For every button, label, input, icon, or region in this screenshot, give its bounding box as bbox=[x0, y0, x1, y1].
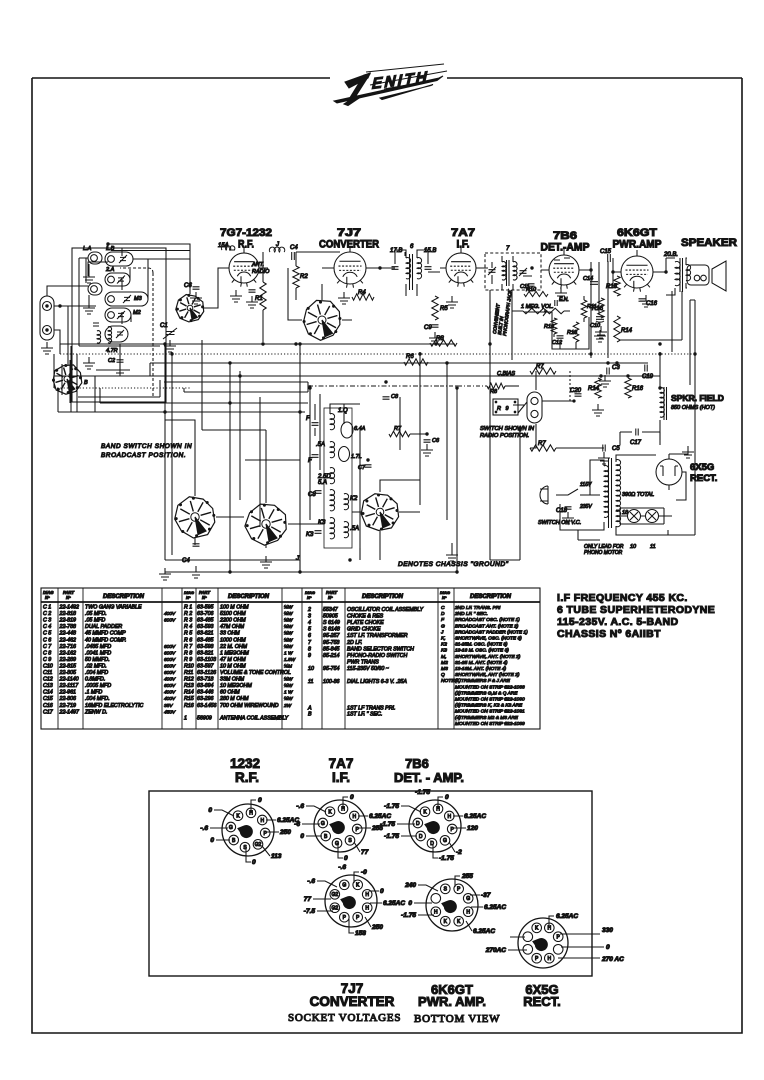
label 6K6GT PWR.AMP bbox=[613, 227, 662, 251]
svg-text:.5A: .5A bbox=[350, 526, 359, 532]
cap C18b bbox=[565, 507, 572, 509]
svg-text:63-595: 63-595 bbox=[197, 605, 214, 611]
wire bottom bus 3 bbox=[230, 531, 457, 572]
svg-text:C14: C14 bbox=[43, 690, 53, 696]
svg-text:R 2: R 2 bbox=[184, 611, 192, 617]
svg-text:R4: R4 bbox=[358, 290, 366, 296]
svg-text:(1)TRIMMERS F & J ARE: (1)TRIMMERS F & J ARE bbox=[455, 678, 511, 684]
svg-text:H: H bbox=[352, 814, 356, 820]
wire coil bank top bbox=[88, 244, 190, 294]
svg-text:C6: C6 bbox=[184, 283, 192, 289]
svg-text:-7.5: -7.5 bbox=[304, 908, 316, 915]
ground 6X5 bbox=[669, 450, 688, 454]
svg-text:.0005 MFD: .0005 MFD bbox=[85, 683, 111, 689]
volume control 1MEG bbox=[523, 308, 564, 314]
oval shield 6.4A bbox=[341, 422, 353, 438]
svg-text:600V: 600V bbox=[164, 657, 176, 663]
svg-text:RECT.: RECT. bbox=[690, 473, 717, 484]
svg-text:1.Q: 1.Q bbox=[338, 408, 348, 414]
svg-text:BROADCAST POSITION.: BROADCAST POSITION. bbox=[101, 452, 186, 459]
svg-text:R 4: R 4 bbox=[184, 624, 192, 630]
svg-text:R12: R12 bbox=[184, 677, 194, 683]
svg-text:G2: G2 bbox=[331, 892, 338, 898]
ground C6b bbox=[426, 444, 428, 450]
coil 5.A2 bbox=[344, 522, 349, 538]
svg-text:PWR.AMP: PWR.AMP bbox=[613, 239, 662, 251]
svg-text:11: 11 bbox=[650, 544, 656, 550]
svg-text:PWR. AMP.: PWR. AMP. bbox=[418, 994, 486, 1009]
svg-text:R6: R6 bbox=[406, 354, 414, 360]
svg-text:0: 0 bbox=[208, 807, 212, 814]
svg-text:MOUNTED ON STRIP #22-1089: MOUNTED ON STRIP #22-1089 bbox=[455, 721, 525, 727]
svg-text:6.25AC: 6.25AC bbox=[484, 904, 506, 911]
wafer switch S5 bbox=[245, 504, 286, 545]
svg-text:C14: C14 bbox=[583, 276, 593, 282]
svg-text:H: H bbox=[466, 910, 470, 916]
svg-text:DIAL LIGHTS 6-3 V. .25A: DIAL LIGHTS 6-3 V. .25A bbox=[347, 679, 407, 685]
svg-text:115-235V. A.C. 5-BAND: 115-235V. A.C. 5-BAND bbox=[557, 616, 678, 628]
svg-text:7J7: 7J7 bbox=[337, 227, 361, 239]
svg-text:3: 3 bbox=[308, 614, 311, 620]
variable cap C1 bbox=[166, 332, 175, 335]
svg-text:BROADCAST ANT. (NOTE 2): BROADCAST ANT. (NOTE 2) bbox=[455, 623, 519, 629]
svg-text:G: G bbox=[443, 838, 447, 844]
svg-text:55347: 55347 bbox=[323, 607, 339, 613]
wire c17 bbox=[620, 432, 660, 445]
resistor R13 bbox=[573, 322, 579, 342]
svg-text:6.25AC: 6.25AC bbox=[383, 900, 405, 907]
svg-text:TWO GANG VARIABLE: TWO GANG VARIABLE bbox=[85, 605, 142, 611]
cap C19 bbox=[645, 365, 647, 372]
coil .5A bbox=[330, 442, 335, 458]
svg-text:-1.75: -1.75 bbox=[401, 912, 416, 919]
svg-text:G2: G2 bbox=[255, 842, 262, 848]
svg-text:R8: R8 bbox=[436, 336, 444, 342]
parts table panel 1 rows bbox=[43, 605, 176, 716]
svg-text:22 M. OHM: 22 M. OHM bbox=[219, 644, 248, 650]
label SPEAKER bbox=[681, 237, 737, 249]
output transformer 20.B bbox=[675, 262, 680, 286]
svg-text:R16: R16 bbox=[184, 703, 194, 709]
svg-text:(3)TRIMMERS K, K2 & K3 ARE: (3)TRIMMERS K, K2 & K3 ARE bbox=[455, 703, 523, 709]
ground S5 bbox=[265, 556, 267, 562]
svg-text:63-597: 63-597 bbox=[197, 663, 215, 669]
wire grid RF bbox=[204, 247, 268, 308]
svg-text:1 W: 1 W bbox=[284, 650, 293, 656]
coil 15.A bbox=[221, 246, 234, 250]
svg-text:6.25AC: 6.25AC bbox=[556, 913, 578, 920]
svg-text:½W: ½W bbox=[284, 630, 293, 637]
svg-text:G: G bbox=[229, 825, 233, 831]
svg-text:11: 11 bbox=[308, 679, 314, 685]
resistor R14b bbox=[595, 378, 601, 398]
svg-text:ZENW D.: ZENW D. bbox=[84, 709, 107, 715]
svg-text:33M OHM: 33M OHM bbox=[220, 677, 245, 683]
svg-text:PHONO MOTOR: PHONO MOTOR bbox=[584, 550, 623, 556]
svg-text:600V: 600V bbox=[164, 618, 176, 624]
7B6 diode plates bbox=[554, 258, 570, 260]
coil unit L.A bbox=[88, 252, 102, 264]
svg-text:0: 0 bbox=[380, 888, 384, 895]
svg-text:22-815: 22-815 bbox=[59, 663, 77, 669]
svg-text:6 TUBE SUPERHETERODYNE: 6 TUBE SUPERHETERODYNE bbox=[557, 604, 715, 616]
svg-text:0: 0 bbox=[344, 855, 348, 862]
tube V6 6X5G bbox=[656, 459, 682, 485]
svg-text:50 MMFD.: 50 MMFD. bbox=[85, 657, 110, 663]
svg-text:R 6: R 6 bbox=[184, 637, 192, 643]
svg-text:BROADCAST OSC. (NOTE 1): BROADCAST OSC. (NOTE 1) bbox=[455, 617, 520, 623]
wire antenna to coils bbox=[47, 286, 96, 365]
svg-text:C1: C1 bbox=[160, 323, 168, 329]
svg-text:H: H bbox=[365, 892, 369, 898]
svg-text:0: 0 bbox=[300, 833, 304, 840]
svg-text:50905: 50905 bbox=[323, 614, 338, 620]
coil J bbox=[269, 247, 284, 252]
svg-text:9: 9 bbox=[308, 653, 311, 659]
wire left verticals bbox=[62, 354, 120, 412]
parts table panel 2 rows bbox=[184, 604, 296, 722]
svg-text:77: 77 bbox=[304, 896, 312, 903]
svg-text:M2: M2 bbox=[441, 660, 448, 666]
trimmer G bbox=[116, 330, 124, 338]
svg-text:45 MMFD COMP: 45 MMFD COMP bbox=[85, 631, 126, 637]
svg-text:PWR TRANS: PWR TRANS bbox=[347, 659, 379, 665]
svg-text:R7: R7 bbox=[394, 426, 402, 432]
wire spkr field bbox=[620, 291, 695, 535]
svg-text:15.B: 15.B bbox=[424, 248, 436, 254]
svg-text:250: 250 bbox=[371, 924, 383, 931]
resistor R5 bbox=[432, 296, 438, 320]
svg-text:10 M OHM: 10 M OHM bbox=[220, 663, 246, 669]
ground C5b bbox=[603, 452, 605, 458]
wire osc top bbox=[315, 404, 360, 436]
svg-text:22-162: 22-162 bbox=[59, 650, 77, 656]
svg-text:100-86: 100-86 bbox=[323, 679, 340, 685]
resistor R10 horizontal bbox=[524, 291, 548, 296]
svg-text:400V: 400V bbox=[164, 696, 176, 702]
wire left drops bbox=[165, 340, 300, 503]
tube V1 7G7-1232 bbox=[229, 253, 259, 283]
svg-text:-1.75: -1.75 bbox=[384, 833, 399, 840]
wire R8b bbox=[440, 385, 487, 387]
svg-text:22-806: 22-806 bbox=[59, 696, 77, 702]
parts table column rules bbox=[58, 588, 454, 729]
tube V5 6K6GT bbox=[621, 256, 653, 288]
cap C11 bbox=[528, 284, 535, 286]
wire lamps bbox=[616, 508, 672, 524]
svg-text:RADIO: RADIO bbox=[252, 269, 270, 275]
svg-text:S 6149: S 6149 bbox=[323, 620, 340, 626]
svg-text:H: H bbox=[434, 910, 438, 916]
svg-text:C15: C15 bbox=[43, 696, 53, 702]
svg-text:400V: 400V bbox=[164, 611, 176, 617]
resistor R2 bbox=[293, 266, 299, 288]
label 6K6GT PWR AMP socket bbox=[418, 982, 486, 1009]
svg-text:C15: C15 bbox=[600, 249, 612, 255]
svg-text:SPKR. FIELD: SPKR. FIELD bbox=[671, 393, 724, 403]
svg-text:6.25AC: 6.25AC bbox=[464, 813, 486, 820]
wire rect bbox=[616, 455, 686, 535]
svg-text:Nº: Nº bbox=[66, 595, 71, 600]
svg-text:-.6: -.6 bbox=[338, 864, 346, 871]
socket V2 leaders bbox=[302, 797, 371, 858]
svg-text:2: 2 bbox=[307, 607, 311, 613]
ground 7A7 cathode bbox=[451, 296, 453, 302]
svg-text:G: G bbox=[441, 623, 445, 629]
svg-text:22-716: 22-716 bbox=[59, 644, 77, 650]
svg-text:J: J bbox=[440, 629, 444, 635]
svg-text:C18: C18 bbox=[556, 508, 568, 514]
svg-text:R1: R1 bbox=[255, 296, 263, 302]
svg-text:DESCRIPTION: DESCRIPTION bbox=[362, 594, 404, 600]
svg-text:22-462: 22-462 bbox=[59, 637, 77, 643]
svg-text:G: G bbox=[321, 821, 325, 827]
wire bus 4 bbox=[54, 375, 660, 377]
coil unit M3 bbox=[105, 292, 148, 306]
cap C7b bbox=[365, 465, 372, 467]
svg-text:L.B: L.B bbox=[106, 246, 115, 252]
svg-text:S 6148: S 6148 bbox=[323, 627, 340, 633]
svg-text:R 3: R 3 bbox=[184, 618, 192, 624]
svg-text:2ND I.F. " SEC.: 2ND I.F. " SEC. bbox=[454, 611, 488, 617]
svg-text:1 W: 1 W bbox=[284, 690, 293, 696]
wire speaker bbox=[666, 258, 687, 295]
svg-text:R14: R14 bbox=[621, 328, 633, 334]
svg-text:-37: -37 bbox=[481, 892, 491, 899]
svg-text:4: 4 bbox=[308, 620, 311, 626]
wafer switch S4 bbox=[175, 497, 215, 538]
cap C9 bbox=[432, 325, 439, 327]
dashed switch enclosure bbox=[120, 268, 153, 397]
svg-text:R10: R10 bbox=[184, 663, 194, 669]
label 7A7 I.F. socket bbox=[329, 756, 354, 785]
svg-text:½M: ½M bbox=[284, 662, 292, 669]
coil 5.A bbox=[330, 490, 335, 511]
svg-text:390Ω TOTAL: 390Ω TOTAL bbox=[622, 492, 654, 498]
socket area frame bbox=[149, 791, 592, 976]
label 7J7 CONVERTER socket bbox=[310, 981, 395, 1009]
wire wafer connects bbox=[288, 268, 352, 320]
svg-text:63-1456: 63-1456 bbox=[197, 703, 216, 709]
label 7B6 DET.-AMP. socket bbox=[394, 756, 464, 785]
svg-text:6: 6 bbox=[308, 633, 311, 639]
svg-text:-.6: -.6 bbox=[307, 878, 315, 885]
pilot lamps bbox=[628, 510, 659, 523]
svg-text:½W: ½W bbox=[284, 623, 293, 630]
svg-text:C12: C12 bbox=[552, 340, 562, 346]
svg-text:½W: ½W bbox=[284, 617, 293, 624]
svg-text:31-25M. OSC. (NOTE 3): 31-25M. OSC. (NOTE 3) bbox=[455, 642, 508, 648]
svg-text:GRID CHOKE: GRID CHOKE bbox=[347, 627, 381, 633]
socket V4 7J7 bbox=[325, 875, 377, 927]
svg-text:½W: ½W bbox=[284, 682, 293, 689]
cap C5b bbox=[603, 445, 605, 452]
svg-text:0: 0 bbox=[606, 944, 610, 951]
spkr field coil bbox=[660, 388, 664, 418]
svg-text:Nº: Nº bbox=[186, 595, 191, 600]
cap C16 bbox=[639, 299, 646, 301]
svg-text:.004 MFD: .004 MFD bbox=[85, 670, 108, 676]
svg-text:22-448: 22-448 bbox=[59, 631, 77, 637]
wafer switch S6 bbox=[361, 494, 398, 531]
coil 15.B bbox=[417, 258, 422, 279]
svg-text:56909: 56909 bbox=[197, 715, 212, 721]
svg-text:6K6GT: 6K6GT bbox=[617, 227, 657, 239]
svg-text:½W: ½W bbox=[284, 676, 293, 683]
ground left mid bbox=[88, 357, 90, 363]
wire osc to wafers bbox=[195, 480, 420, 548]
svg-text:22-788: 22-788 bbox=[59, 624, 77, 630]
svg-text:½W: ½W bbox=[284, 695, 293, 702]
svg-text:.05 MFD.: .05 MFD. bbox=[85, 611, 107, 617]
wire drop 2 bbox=[360, 300, 490, 560]
svg-text:85-214: 85-214 bbox=[323, 653, 340, 659]
svg-text:95-758: 95-758 bbox=[323, 640, 340, 646]
resistor R8 bbox=[430, 340, 457, 346]
ground C18 bbox=[597, 404, 599, 410]
svg-text:63-593: 63-593 bbox=[197, 624, 214, 630]
cap C6 bbox=[193, 287, 200, 289]
wire bus 6 bbox=[100, 402, 308, 404]
svg-text:22-961: 22-961 bbox=[59, 690, 77, 696]
svg-text:40 MMFD COMP.: 40 MMFD COMP. bbox=[85, 637, 126, 643]
svg-text:ANT.: ANT. bbox=[251, 262, 264, 268]
cap C2 bbox=[117, 360, 124, 362]
phono switch box bbox=[493, 399, 518, 415]
svg-text:DESCRIPTION: DESCRIPTION bbox=[103, 594, 145, 600]
wire bottom bus 1 bbox=[165, 559, 300, 561]
tube V2 7J7 converter bbox=[334, 252, 366, 284]
svg-text:C19: C19 bbox=[642, 374, 654, 380]
phono lead note bbox=[578, 530, 600, 540]
svg-text:2200 OHM: 2200 OHM bbox=[219, 618, 246, 624]
ground S4 bbox=[164, 568, 166, 574]
svg-text:600V: 600V bbox=[164, 663, 176, 669]
svg-text:PLATE CHOKE: PLATE CHOKE bbox=[347, 620, 384, 626]
svg-text:C17: C17 bbox=[630, 440, 642, 446]
svg-text:C 7: C 7 bbox=[43, 644, 52, 650]
trimmer F2 bbox=[312, 455, 319, 458]
chassis info text bbox=[557, 592, 715, 640]
svg-text:VOLUME & TONE CONTROL: VOLUME & TONE CONTROL bbox=[220, 670, 291, 676]
svg-text:R 5: R 5 bbox=[184, 631, 192, 637]
svg-text:R15: R15 bbox=[606, 284, 618, 290]
svg-text:22-1140: 22-1140 bbox=[59, 677, 79, 683]
svg-text:.02 MFD.: .02 MFD. bbox=[85, 663, 107, 669]
coil unit M2 bbox=[105, 308, 131, 322]
phono switch stadium bbox=[527, 392, 542, 423]
speaker bbox=[687, 261, 726, 291]
parts table headers bbox=[43, 590, 512, 600]
ground C2 bbox=[119, 364, 121, 370]
svg-text:C8: C8 bbox=[308, 492, 316, 498]
svg-text:270 AC: 270 AC bbox=[601, 956, 624, 963]
svg-text:CHOKE & RES: CHOKE & RES bbox=[347, 614, 384, 620]
svg-text:47M OHM: 47M OHM bbox=[220, 624, 245, 630]
svg-text:.05 MFD: .05 MFD bbox=[85, 618, 105, 624]
wire bus 7 bbox=[58, 411, 305, 413]
svg-text:1.7L: 1.7L bbox=[351, 454, 362, 460]
svg-text:SPEAKER: SPEAKER bbox=[681, 237, 737, 249]
wire dashdot mid bbox=[308, 385, 440, 387]
svg-text:100 M OHM: 100 M OHM bbox=[220, 605, 249, 611]
svg-text:(4)TRIMMERS M2 & M3 ARE: (4)TRIMMERS M2 & M3 ARE bbox=[455, 715, 519, 721]
svg-text:63-706: 63-706 bbox=[197, 611, 214, 617]
svg-text:0: 0 bbox=[210, 837, 214, 844]
svg-text:22-1117: 22-1117 bbox=[59, 683, 80, 689]
svg-text:I.F.: I.F. bbox=[332, 770, 350, 785]
svg-text:Nº: Nº bbox=[442, 595, 447, 600]
switch on vc bbox=[556, 489, 590, 495]
svg-text:63-485: 63-485 bbox=[197, 637, 214, 643]
cap C8b bbox=[383, 397, 390, 399]
svg-text:10: 10 bbox=[630, 544, 637, 550]
antenna terminal strip bbox=[40, 296, 54, 340]
svg-text:(2)TRIMMERS G,M & Q ARE: (2)TRIMMERS G,M & Q ARE bbox=[455, 690, 518, 696]
svg-text:R5: R5 bbox=[440, 306, 448, 312]
svg-text:17.B: 17.B bbox=[390, 248, 402, 254]
trimmer cap IF2 left bbox=[489, 270, 496, 273]
svg-text:280 M OHM: 280 M OHM bbox=[219, 696, 249, 702]
svg-text:½W: ½W bbox=[284, 610, 293, 617]
svg-text:700 OHM WIREWOUND: 700 OHM WIREWOUND bbox=[220, 703, 279, 709]
cap C10 bbox=[315, 531, 322, 534]
resistor R14 bbox=[614, 316, 620, 342]
svg-text:33 OHM: 33 OHM bbox=[220, 631, 240, 637]
svg-text:SOCKET VOLTAGES: SOCKET VOLTAGES bbox=[288, 1012, 401, 1024]
svg-text:DET.-AMP: DET.-AMP bbox=[541, 242, 590, 254]
svg-text:10: 10 bbox=[308, 666, 314, 672]
svg-text:R7: R7 bbox=[536, 364, 544, 370]
ground C1 bbox=[169, 340, 171, 346]
svg-text:158: 158 bbox=[355, 930, 366, 937]
ground bus right bbox=[604, 375, 606, 381]
wire stadium out bbox=[542, 400, 574, 402]
svg-text:MOUNTED ON STRIP #22-1088: MOUNTED ON STRIP #22-1088 bbox=[455, 684, 525, 690]
coil 1.Q bbox=[330, 414, 335, 430]
resistor R16b bbox=[625, 378, 631, 398]
parts table frame bbox=[41, 588, 540, 729]
svg-text:450V: 450V bbox=[164, 709, 176, 715]
svg-text:Nº: Nº bbox=[328, 595, 333, 600]
parts table panel 4 rows bbox=[440, 605, 528, 727]
svg-text:20.B.: 20.B. bbox=[663, 252, 678, 258]
RF coil bank box bbox=[72, 248, 166, 402]
svg-text:63-1126: 63-1126 bbox=[197, 670, 216, 676]
svg-text:BAND SWITCH SHOWN IN: BAND SWITCH SHOWN IN bbox=[101, 443, 192, 450]
denotes ground symbol bbox=[451, 543, 453, 549]
coil 7.B bbox=[513, 262, 517, 280]
svg-text:-6: -6 bbox=[294, 821, 300, 828]
svg-text:6X5G: 6X5G bbox=[690, 462, 714, 473]
svg-text:-.6: -.6 bbox=[296, 803, 304, 810]
svg-text:63-296: 63-296 bbox=[197, 696, 214, 702]
svg-text:63-694: 63-694 bbox=[197, 683, 214, 689]
svg-text:C 3: C 3 bbox=[43, 618, 51, 624]
svg-text:F: F bbox=[306, 416, 310, 422]
svg-text:L.A: L.A bbox=[83, 246, 92, 252]
svg-text:R8: R8 bbox=[490, 389, 498, 395]
ground converter bbox=[343, 292, 345, 298]
socket V3 7B6 bbox=[409, 800, 461, 852]
svg-text:M,: M, bbox=[441, 654, 446, 660]
svg-text:C5: C5 bbox=[612, 446, 620, 452]
coil K2 bbox=[344, 494, 349, 510]
socket V5 leaders bbox=[414, 876, 483, 931]
svg-text:C8: C8 bbox=[391, 394, 399, 400]
wire phono bbox=[490, 371, 604, 560]
resistor R1 bbox=[260, 282, 266, 310]
